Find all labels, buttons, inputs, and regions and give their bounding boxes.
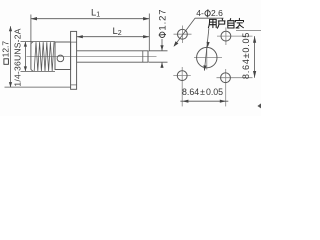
svg-text:1.27: 1.27	[158, 9, 169, 31]
svg-text:8.64±0.05: 8.64±0.05	[241, 32, 251, 79]
svg-text:8.64±0.05: 8.64±0.05	[182, 87, 223, 97]
svg-text:12.7: 12.7	[1, 41, 11, 58]
svg-text:2.6: 2.6	[211, 8, 223, 18]
svg-text:1/4-36UNS-2A: 1/4-36UNS-2A	[12, 28, 22, 86]
svg-text:4-: 4-	[196, 8, 204, 18]
